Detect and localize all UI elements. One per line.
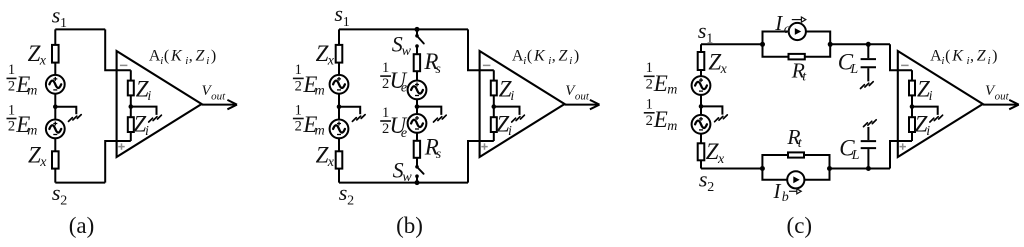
resistor Rt lower (c) [788, 152, 804, 157]
wire: bottom rail (b) [339, 182, 468, 184]
svg-text:K: K [170, 48, 183, 65]
svg-text:w: w [402, 44, 412, 59]
wire: bottom rail left segment (c) [701, 168, 762, 170]
svg-text:out: out [575, 90, 590, 102]
wire: top rail (a) [55, 28, 105, 30]
svg-text:Z: Z [559, 48, 569, 65]
svg-text:I: I [774, 11, 783, 35]
svg-text:x: x [720, 62, 728, 77]
node: top loop left junction (c) [760, 42, 765, 47]
resistor Zx lower (b) [336, 151, 343, 168]
svg-text:Z: Z [708, 49, 721, 74]
svg-text:(b): (b) [396, 213, 423, 238]
svg-text:,: , [552, 48, 556, 65]
svg-text:2: 2 [646, 113, 653, 129]
svg-text:2: 2 [707, 180, 714, 195]
ground: Ue midpoint (b) [434, 115, 447, 122]
resistor Zi upper (c) [909, 81, 915, 96]
svg-text:K: K [533, 48, 546, 65]
resistor Zi lower (a) [128, 117, 134, 132]
wire: non-inverting input feed (b) [468, 141, 494, 183]
label Ib with current arrow (c) [773, 179, 802, 205]
svg-text:,: , [970, 48, 974, 65]
ground: CL top (c) [861, 82, 874, 89]
svg-text:i: i [147, 89, 151, 104]
wire: output lead (b) [565, 104, 600, 106]
wire: inverting input feed (b) [468, 29, 494, 70]
svg-text:(: ( [945, 48, 950, 65]
svg-text:2: 2 [8, 79, 15, 95]
source Em lower (a) [46, 119, 65, 138]
op-amp plus input mark (c) [900, 143, 906, 149]
current source Ia (c) [789, 23, 806, 40]
svg-text:1: 1 [8, 62, 15, 78]
wire: output lead (a) [202, 104, 237, 106]
label Ia with current arrow (c) [774, 11, 806, 37]
svg-text:m: m [315, 124, 325, 139]
wire: midpoint ground stub (a) [55, 107, 76, 115]
node: CL top junction (c) [866, 42, 871, 47]
op-amp plus input mark (a) [118, 143, 124, 149]
svg-text:Z: Z [28, 41, 41, 66]
resistor Rs lower (b) [414, 141, 420, 158]
label 1/2 Em upper (c) [644, 60, 678, 97]
wire: output lead (c) [983, 104, 1019, 106]
label 1/2 Em upper (b) [293, 62, 325, 98]
svg-text:i: i [941, 55, 944, 67]
ground: source midpoint (a) [69, 115, 82, 122]
op-amp U-a triangle [117, 51, 202, 157]
node: divider midpoint (b) [492, 104, 497, 109]
svg-text:m: m [667, 119, 677, 134]
wire: left source branch (a) [54, 29, 56, 182]
svg-text:): ) [211, 48, 216, 65]
op-amp plus input mark (b) [481, 143, 487, 149]
svg-text:b: b [782, 190, 789, 205]
wire: internal input divider branch (c) [911, 70, 913, 141]
wire: non-inverting input feed (a) [105, 141, 131, 183]
svg-text:1: 1 [343, 15, 350, 30]
node: Ue midpoint junction (b) [415, 104, 420, 109]
resistor Zx upper (b) [336, 45, 343, 63]
current source Ib (c) [787, 171, 804, 188]
svg-text:L: L [851, 148, 860, 163]
source Em lower (b) [330, 119, 349, 138]
output arrowhead (a) [227, 100, 237, 109]
svg-text:Z: Z [28, 142, 41, 167]
svg-text:Z: Z [196, 48, 206, 65]
wire: top rail left segment (c) [701, 43, 763, 45]
label Ai(Ki,Zi) (b) [512, 48, 579, 67]
resistor Zi lower (b) [491, 117, 497, 132]
resistor Zx upper (a) [52, 45, 59, 63]
wire: non-inverting input feed (c) [890, 141, 912, 169]
svg-text:1: 1 [382, 105, 389, 121]
svg-text:2: 2 [60, 193, 67, 208]
svg-text:): ) [992, 48, 997, 65]
node: CL bottom junction (c) [866, 166, 871, 171]
svg-text:i: i [510, 89, 514, 104]
switch Sw lower (b) [415, 165, 423, 178]
svg-text:1: 1 [646, 97, 653, 113]
svg-text:2: 2 [8, 119, 15, 135]
source Em upper (c) [692, 76, 711, 95]
wire: inverting input feed (c) [890, 44, 912, 70]
node: bottom loop right junction (c) [827, 166, 832, 171]
wire: bottom rail (a) [55, 182, 105, 184]
svg-text:out: out [211, 90, 226, 102]
svg-text:(: ( [164, 48, 169, 65]
svg-text:i: i [926, 124, 930, 139]
svg-text:1: 1 [382, 60, 389, 76]
svg-text:2: 2 [382, 76, 389, 92]
resistor Rt upper (c) [789, 54, 805, 60]
svg-text:e: e [401, 81, 407, 96]
op-amp minus input mark (b) [483, 64, 491, 66]
svg-text:1: 1 [8, 102, 15, 118]
output arrowhead (b) [590, 100, 600, 109]
source Em upper (a) [46, 75, 65, 94]
svg-text:2: 2 [295, 119, 302, 135]
svg-text:E: E [653, 71, 668, 96]
svg-text:1: 1 [295, 62, 302, 78]
resistor Zi upper (b) [491, 81, 497, 96]
svg-text:i: i [569, 55, 572, 67]
svg-text:s: s [339, 180, 348, 205]
resistor Zx lower (c) [698, 143, 705, 160]
resistor Rs upper (b) [414, 54, 420, 71]
svg-text:i: i [523, 55, 526, 67]
wire: top rail (b) [339, 28, 468, 30]
wire: midpoint ground stub (b) [339, 107, 360, 115]
svg-text:Z: Z [977, 48, 987, 65]
wire: left source branch (b) [338, 29, 340, 182]
svg-text:Z: Z [316, 41, 329, 66]
node: divider midpoint (a) [129, 104, 134, 109]
svg-text:m: m [27, 124, 37, 139]
node: source midpoint junction (a) [53, 104, 58, 109]
node: source midpoint junction (c) [699, 104, 704, 109]
resistor Zi lower (c) [909, 117, 915, 132]
svg-text:K: K [951, 48, 964, 65]
switch Sw upper (b) [415, 34, 424, 48]
source Ue upper (b) [408, 81, 427, 100]
wire: top rail right segment (c) [830, 43, 890, 45]
wire: Ia/Rt parallel loop (c) [763, 32, 831, 57]
label 1/2 Em lower (b) [293, 102, 325, 138]
ground: CL bottom (inverted) (c) [864, 120, 877, 127]
svg-text:x: x [717, 152, 725, 167]
svg-text:w: w [402, 170, 412, 185]
svg-text:2: 2 [646, 76, 653, 92]
node: source midpoint junction (b) [337, 104, 342, 109]
svg-text:): ) [574, 48, 579, 65]
wire: divider midpoint ground stub (a) [131, 107, 157, 115]
svg-text:(a): (a) [69, 213, 95, 238]
svg-text:L: L [849, 62, 858, 77]
ground: divider midpoint (c) [930, 115, 943, 122]
svg-text:2: 2 [382, 121, 389, 137]
wire: midpoint ground stub (c) [701, 106, 722, 114]
resistor Zx upper (c) [698, 52, 705, 70]
wire: Ue midpoint ground stub (b) [417, 107, 441, 115]
svg-text:,: , [189, 48, 193, 65]
svg-text:1: 1 [295, 102, 302, 118]
svg-text:Z: Z [706, 139, 719, 164]
svg-text:i: i [206, 55, 209, 67]
op-amp U-c triangle [898, 51, 983, 157]
svg-text:m: m [667, 82, 677, 97]
svg-text:Z: Z [316, 142, 329, 167]
svg-text:a: a [784, 22, 791, 37]
source Em upper (b) [330, 75, 349, 94]
ground: source midpoint (c) [715, 115, 728, 122]
op-amp minus input mark (a) [120, 64, 128, 66]
ground: divider midpoint (b) [512, 115, 525, 122]
svg-text:x: x [327, 54, 335, 69]
svg-text:i: i [508, 124, 512, 139]
svg-text:i: i [988, 55, 991, 67]
node: middle branch top junction (b) [415, 27, 420, 32]
node: divider midpoint (c) [910, 104, 915, 109]
svg-text:2: 2 [347, 193, 354, 208]
op-amp minus input mark (c) [901, 64, 909, 66]
svg-text:s: s [435, 62, 441, 77]
svg-text:e: e [401, 126, 407, 141]
wire: divider midpoint ground stub (b) [494, 107, 520, 115]
svg-text:s: s [698, 18, 707, 43]
ground: source midpoint (b) [352, 115, 365, 122]
wire: divider midpoint ground stub (c) [912, 107, 938, 115]
resistor Zi upper (a) [128, 81, 134, 96]
svg-text:2: 2 [295, 79, 302, 95]
svg-text:s: s [52, 180, 61, 205]
label 1/2 Em upper (a) [7, 62, 38, 98]
label 1/2 Ue lower (b) [380, 105, 407, 141]
svg-text:I: I [773, 179, 782, 203]
label 1/2 Ue upper (b) [380, 60, 407, 96]
node: top loop right junction (c) [828, 42, 833, 47]
svg-text:E: E [653, 107, 668, 132]
wire: internal input divider branch (b) [493, 70, 495, 141]
svg-text:i: i [145, 124, 149, 139]
svg-text:i: i [160, 55, 163, 67]
label Ai(Ki,Zi) (c) [930, 48, 997, 67]
label 1/2 Em lower (c) [644, 97, 678, 134]
label 1/2 Em lower (a) [7, 102, 38, 138]
wire: inverting input feed (a) [105, 29, 131, 70]
svg-text:s: s [699, 167, 708, 192]
output arrowhead (c) [1009, 100, 1019, 109]
resistor Zx lower (a) [52, 151, 59, 168]
source Em lower (c) [692, 115, 711, 134]
ground: divider midpoint (a) [149, 115, 162, 122]
svg-text:(c): (c) [787, 213, 813, 238]
svg-text:s: s [334, 1, 343, 26]
wire: internal input divider branch (a) [130, 70, 132, 141]
svg-text:A: A [930, 48, 942, 65]
wire: middle switched branch (b) [416, 29, 418, 182]
wire: Rt/Ib parallel loop (c) [762, 155, 829, 180]
svg-text:x: x [39, 54, 47, 69]
wire: bottom rail right segment (c) [830, 168, 891, 170]
node: bottom loop left junction (c) [760, 166, 765, 171]
svg-text:1: 1 [646, 60, 653, 76]
svg-text:(: ( [527, 48, 532, 65]
label Ai(Ki,Zi) (a) [149, 48, 216, 67]
svg-text:s: s [436, 147, 442, 162]
svg-text:x: x [39, 155, 47, 170]
svg-text:i: i [929, 89, 933, 104]
svg-text:m: m [27, 84, 37, 99]
wire: left source branch (c) [700, 44, 702, 168]
capacitor CL bottom (c) [867, 149, 869, 168]
capacitor CL top (c) [867, 44, 869, 58]
node: middle branch bottom junction (b) [415, 180, 420, 185]
svg-text:out: out [995, 90, 1010, 102]
svg-text:x: x [327, 155, 335, 170]
svg-text:A: A [149, 48, 161, 65]
svg-text:A: A [512, 48, 524, 65]
op-amp U-b triangle [480, 51, 565, 157]
source Ue lower (b) [408, 114, 427, 133]
svg-text:m: m [315, 84, 325, 99]
